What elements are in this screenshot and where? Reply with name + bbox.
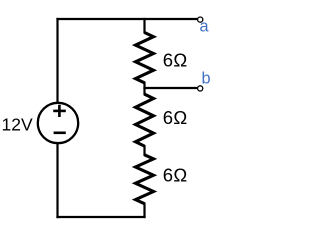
svg-text:12V: 12V xyxy=(2,115,33,135)
svg-text:6Ω: 6Ω xyxy=(163,164,188,185)
svg-text:6Ω: 6Ω xyxy=(163,107,188,128)
svg-text:b: b xyxy=(202,70,211,88)
svg-text:a: a xyxy=(200,18,210,36)
svg-text:6Ω: 6Ω xyxy=(163,50,188,71)
